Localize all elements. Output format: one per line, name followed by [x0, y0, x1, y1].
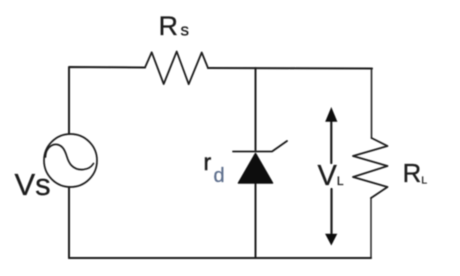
- wire right branch upper: [371, 69, 373, 138]
- wire middle branch upper: [255, 68, 257, 150]
- arrow VL up: [325, 107, 337, 163]
- arrow VL down: [325, 189, 337, 246]
- zener diode rd cathode bar: [233, 141, 287, 152]
- svg-text:VL: VL: [318, 160, 344, 192]
- wire top-right segment: [208, 67, 372, 70]
- svg-text:Vs: Vs: [15, 167, 51, 202]
- svg-text:r: r: [204, 149, 212, 175]
- resistor RL zigzag: [353, 138, 388, 198]
- resistor Rs zigzag: [145, 52, 208, 85]
- svg-text:d: d: [214, 165, 225, 187]
- wire right branch lower: [370, 198, 372, 258]
- wire left vertical lower: [68, 187, 70, 258]
- svg-text:Rs: Rs: [159, 11, 190, 41]
- svg-text:RL: RL: [403, 158, 428, 188]
- wire middle branch lower: [255, 184, 257, 258]
- voltage source Vs circle: [44, 134, 97, 187]
- voltage source Vs sine wave: [46, 144, 94, 169]
- wire bottom rail: [69, 257, 371, 259]
- wire top-left segment: [69, 67, 145, 134]
- zener diode rd triangle: [239, 154, 273, 184]
